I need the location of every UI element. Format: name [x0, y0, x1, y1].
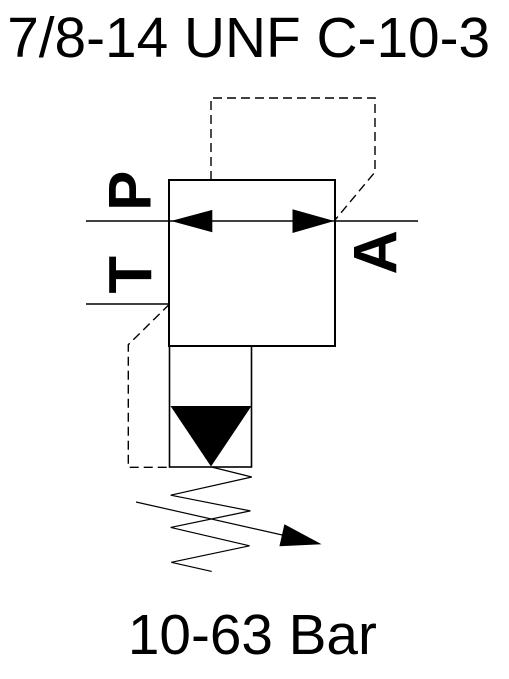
- spring: [171, 467, 252, 571]
- svg-text:10-63 Bar: 10-63 Bar: [128, 604, 377, 667]
- arrowhead right (to port A): [293, 209, 335, 233]
- arrowhead left (to port P): [171, 210, 212, 232]
- adjustment arrowhead: [279, 524, 321, 546]
- adjustment arrow shaft: [136, 502, 300, 539]
- pilot section rectangle: [170, 346, 252, 467]
- poppet: filled triangle: [171, 406, 252, 467]
- wire: P to A flow line: [86, 220, 418, 222]
- svg-text:T: T: [96, 256, 165, 294]
- wire: dashed pilot drain line: [128, 304, 169, 467]
- svg-text:A: A: [342, 230, 411, 274]
- dashed cartridge envelope: [211, 98, 375, 220]
- wire: port T line: [86, 303, 170, 305]
- valve body square: [169, 180, 335, 346]
- svg-text:P: P: [96, 171, 163, 211]
- svg-text:7/8-14 UNF C-10-3: 7/8-14 UNF C-10-3: [7, 7, 490, 70]
